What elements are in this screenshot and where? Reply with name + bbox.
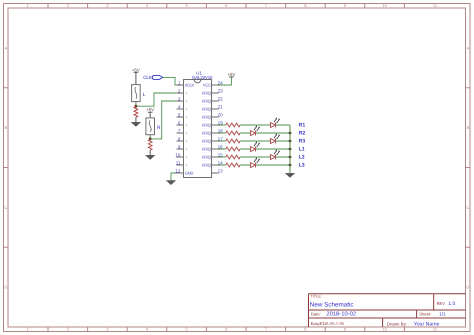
svg-text:I: I: [186, 116, 187, 120]
svg-text:I/O/Q: I/O/Q: [202, 107, 211, 112]
svg-text:11: 11: [176, 160, 181, 165]
svg-text:I/O/Q: I/O/Q: [202, 99, 211, 104]
wire +5V to fuse R: [149, 112, 151, 118]
svg-text:I/O/Q: I/O/Q: [202, 139, 211, 144]
junction (R node): [149, 138, 152, 141]
wire resistor to LED (R2): [240, 132, 250, 134]
svg-text:I: I: [186, 92, 187, 96]
wire LED to bus (L2): [276, 156, 291, 158]
fuse R: [146, 118, 161, 135]
power flag +5V (VCC): [228, 72, 236, 77]
svg-text:I: I: [186, 124, 187, 128]
fuse L: [132, 85, 146, 102]
svg-text:L: L: [143, 92, 146, 98]
resistor (row R3): [226, 139, 240, 143]
svg-text:I/O/Q: I/O/Q: [202, 163, 211, 168]
svg-text:1.0: 1.0: [448, 301, 455, 307]
resistor (row L2): [226, 155, 240, 159]
wire U1 pin 17 to resistor (R3): [219, 140, 226, 142]
resistor (L pull-down): [134, 107, 138, 118]
resistor (row L3): [226, 163, 240, 167]
svg-text:+5V: +5V: [132, 67, 140, 72]
svg-text:A: A: [466, 45, 469, 50]
wire +5V to fuse L: [135, 72, 137, 84]
resistor (row L1): [226, 147, 240, 151]
ground (U1 GND): [166, 181, 175, 185]
svg-text:EasyEDA V5.7.26: EasyEDA V5.7.26: [311, 321, 345, 326]
LED (row R1): [271, 117, 280, 127]
wire R node to U1 pin 3: [150, 101, 176, 139]
IC U1 GAL22V10: [175, 70, 223, 177]
wire resistor to LED (R1): [240, 124, 270, 126]
svg-text:C: C: [4, 205, 7, 210]
svg-text:2018-10-02: 2018-10-02: [326, 311, 356, 318]
wire resistor to LED (R3): [240, 140, 270, 142]
svg-text:New Schematic: New Schematic: [310, 302, 354, 309]
wire U1 pin 14 to resistor (L3): [219, 164, 226, 166]
svg-text:I/CLK: I/CLK: [185, 83, 195, 88]
svg-text:CLK: CLK: [143, 75, 153, 80]
svg-text:I/O/Q: I/O/Q: [202, 155, 211, 160]
wire resistor to LED (L2): [240, 156, 270, 158]
svg-text:I: I: [186, 156, 187, 160]
svg-text:Drawn By:: Drawn By:: [387, 321, 407, 326]
svg-text:L2: L2: [299, 154, 305, 160]
svg-text:I: I: [186, 164, 187, 168]
junction (bus node R3): [289, 140, 292, 143]
svg-text:I: I: [186, 148, 187, 152]
junction (bus node L2): [289, 156, 292, 159]
LED (row L1): [251, 141, 260, 151]
svg-text:Date:: Date:: [311, 312, 321, 317]
svg-text:VCC: VCC: [203, 83, 211, 88]
LED (row R2): [251, 125, 260, 135]
svg-text:10: 10: [382, 327, 387, 332]
wire fuse R to junction: [149, 135, 151, 139]
wire LED to bus (R1): [276, 124, 291, 126]
svg-text:D: D: [466, 285, 469, 290]
wire resistor to LED (L3): [240, 164, 250, 166]
wire L node to U1 pin 2: [136, 93, 177, 106]
wire LED to bus (R3): [276, 140, 291, 142]
svg-text:21: 21: [218, 104, 224, 109]
svg-text:Your Name: Your Name: [414, 321, 440, 327]
ground (R branch): [146, 156, 155, 160]
svg-text:TITLE:: TITLE:: [310, 294, 322, 299]
resistor (R pull-down): [148, 140, 152, 151]
svg-text:+5V: +5V: [228, 72, 236, 77]
svg-text:D: D: [4, 285, 7, 290]
svg-text:C: C: [466, 205, 469, 210]
svg-text:I/O/Q: I/O/Q: [202, 131, 211, 136]
LED (row L2): [271, 149, 280, 159]
svg-text:REV: REV: [437, 301, 446, 306]
net flag CLK: [143, 75, 162, 80]
svg-text:10: 10: [175, 152, 181, 157]
wire resistor to ground (R): [149, 150, 151, 155]
wire U1 pin 12 to ground: [171, 173, 177, 181]
svg-text:R3: R3: [299, 138, 306, 144]
wire U1 pin 15 to resistor (L2): [219, 156, 226, 158]
svg-text:R: R: [157, 125, 161, 131]
wire U1 pin 19 to resistor (R1): [219, 124, 226, 126]
svg-text:B: B: [466, 125, 469, 130]
junction (L node): [135, 105, 138, 108]
wire LED to bus (R2): [256, 132, 291, 134]
wire LED to bus (L3): [256, 164, 291, 166]
LED (row R3): [271, 133, 280, 143]
svg-text:20: 20: [218, 112, 224, 117]
svg-text:I/O/Q: I/O/Q: [202, 147, 211, 152]
svg-text:GND: GND: [185, 171, 194, 176]
svg-text:I/O/Q: I/O/Q: [202, 123, 211, 128]
svg-text:I: I: [186, 132, 187, 136]
svg-text:A: A: [4, 45, 7, 50]
junction (bus node R2): [289, 132, 292, 135]
svg-text:13: 13: [218, 168, 224, 173]
svg-text:I/O/Q: I/O/Q: [202, 115, 211, 120]
power flag +5V (R branch): [146, 107, 154, 112]
svg-text:I: I: [186, 108, 187, 112]
svg-text:L3: L3: [299, 162, 305, 168]
svg-text:B: B: [4, 125, 7, 130]
svg-text:23: 23: [218, 88, 224, 93]
power flag +5V (L branch): [132, 67, 140, 72]
ground (LED bus): [285, 174, 294, 178]
wire CLK to U1 pin 1: [163, 77, 177, 85]
svg-text:+5V: +5V: [146, 107, 154, 112]
svg-text:10: 10: [382, 3, 387, 8]
wire resistor to ground (L): [135, 117, 137, 122]
resistor (row R2): [226, 131, 240, 135]
junction (bus node L3): [289, 164, 292, 167]
svg-text:I/O/Q: I/O/Q: [202, 91, 211, 96]
svg-text:GAL22V10: GAL22V10: [192, 75, 213, 80]
svg-text:I: I: [186, 100, 187, 104]
wire resistor to LED (L1): [240, 148, 250, 150]
wire U1 pin 16 to resistor (L1): [219, 148, 226, 150]
wire fuse L to junction: [135, 102, 137, 107]
wire LED to bus (L1): [256, 148, 291, 150]
resistor (row R1): [226, 123, 240, 127]
svg-text:Sheet:: Sheet:: [419, 312, 431, 317]
svg-text:22: 22: [218, 96, 224, 101]
svg-text:L1: L1: [299, 146, 305, 152]
svg-text:R1: R1: [299, 122, 306, 128]
wire LED bus to ground: [289, 125, 291, 173]
wire U1 pin 18 to resistor (R2): [219, 132, 226, 134]
wire U1 pin 24 to +5V: [219, 77, 232, 85]
LED (row L3): [251, 157, 260, 167]
svg-text:I: I: [186, 140, 187, 144]
junction (bus node L1): [289, 148, 292, 151]
svg-text:1/1: 1/1: [439, 312, 446, 317]
svg-text:R2: R2: [299, 130, 306, 136]
ground (L branch): [131, 123, 140, 127]
